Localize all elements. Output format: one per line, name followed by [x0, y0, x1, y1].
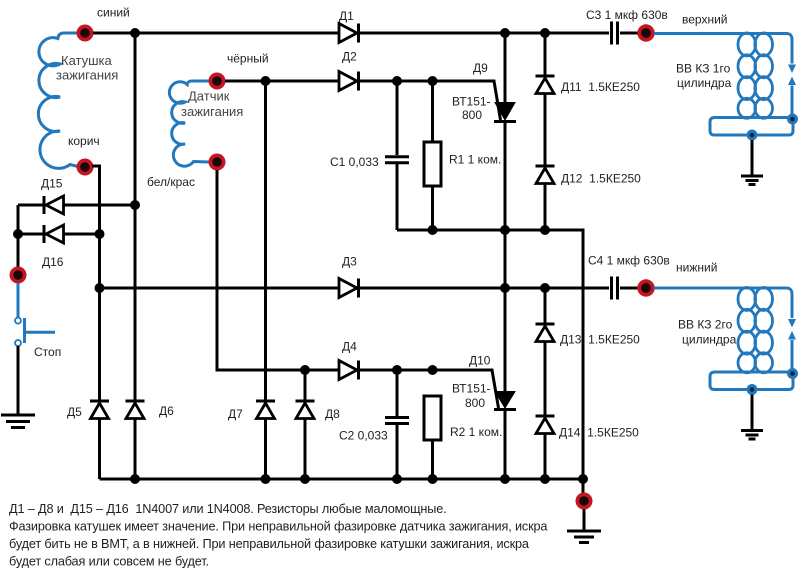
wire row y288 D3 to C4	[357, 287, 609, 290]
wire D2 row D2 to gate	[357, 81, 501, 120]
terminal чёрный	[209, 73, 226, 90]
capacitor C3	[612, 22, 618, 45]
svg-text:зажигания: зажигания	[181, 104, 243, 119]
node y230 D9	[500, 225, 510, 235]
node bottom x266	[261, 474, 271, 484]
svg-text:верхний: верхний	[682, 13, 728, 27]
diode D15	[18, 196, 135, 214]
node top junction x135	[130, 28, 140, 38]
svg-text:Д2: Д2	[342, 50, 357, 64]
node D15 x135	[130, 200, 140, 210]
resistor R2	[424, 396, 441, 440]
node x100 D16 row	[95, 229, 105, 239]
svg-text:800: 800	[462, 108, 482, 122]
node y230 R1	[428, 225, 438, 235]
svg-text:Д1: Д1	[339, 9, 354, 23]
wire vertical x218 белкрас to D4 row	[217, 170, 339, 370]
node D2 row x265	[261, 76, 271, 86]
wire D8 lower lead	[304, 419, 307, 479]
node top row D11 tap	[540, 28, 550, 38]
node D4 row R2 tap	[428, 365, 438, 375]
svg-text:цилиндра: цилиндра	[677, 76, 732, 90]
diode D2	[339, 72, 359, 91]
wire C2 upper lead	[396, 370, 399, 416]
svg-text:Д12 1.5КЕ250: Д12 1.5КЕ250	[561, 172, 641, 186]
svg-text:Д7: Д7	[228, 407, 243, 421]
diode D7	[256, 401, 275, 419]
wire R1 lower lead	[431, 186, 434, 230]
svg-text:Фазировка катушек имеет значен: Фазировка катушек имеет значение. При не…	[9, 520, 548, 534]
svg-text:Д8: Д8	[325, 407, 340, 421]
node y288 D10	[500, 283, 510, 293]
node D4 row C2 tap	[392, 365, 402, 375]
svg-text:Датчик: Датчик	[188, 89, 230, 104]
svg-text:чёрный: чёрный	[227, 52, 269, 66]
capacitor C2	[385, 418, 409, 424]
ground bottom	[567, 531, 601, 543]
svg-text:Д11 1.5КЕ250: Д11 1.5КЕ250	[561, 80, 640, 94]
svg-text:корич: корич	[68, 134, 100, 148]
node bottom x135	[130, 474, 140, 484]
wire common row y230	[397, 230, 583, 479]
wire ground stem bottom	[583, 509, 586, 530]
diode D4	[339, 361, 359, 380]
svg-text:Д14 1.5КЕ250: Д14 1.5КЕ250	[559, 426, 639, 440]
svg-text:Д4: Д4	[342, 340, 357, 354]
svg-text:Д10: Д10	[469, 354, 491, 368]
capacitor C1	[385, 157, 409, 163]
node bottom x505	[500, 474, 510, 484]
terminal стоп	[10, 267, 27, 284]
svg-text:Катушка: Катушка	[61, 53, 113, 68]
transformer T1 ВВ КЗ 1го цилиндра	[654, 33, 798, 185]
diode D6	[126, 401, 145, 419]
wire R2 lower lead	[431, 440, 434, 479]
svg-text:цилиндра: цилиндра	[682, 333, 737, 347]
wire D14 to bottom row	[544, 434, 547, 480]
terminal корич	[77, 159, 94, 176]
terminal синий	[77, 25, 94, 42]
node y230 D12	[540, 225, 550, 235]
node D2 row C1 tap	[392, 76, 402, 86]
svg-text:зажигания: зажигания	[56, 68, 118, 83]
wire x266 below D7	[264, 419, 267, 479]
svg-text:бел/крас: бел/крас	[147, 175, 195, 189]
wire C2 lower lead	[396, 425, 399, 479]
diode D16	[18, 225, 100, 243]
diode D1	[339, 24, 359, 43]
terminal ground bottom	[576, 493, 593, 510]
wire C1 upper lead	[396, 81, 399, 155]
svg-text:синий: синий	[97, 6, 130, 20]
svg-text:нижний: нижний	[676, 261, 717, 275]
svg-text:С1 0,033: С1 0,033	[330, 155, 379, 169]
thyristor D9 BT151-800	[494, 103, 516, 122]
diode D5	[90, 401, 109, 419]
terminal нижний	[637, 279, 654, 296]
wire switch to ground	[17, 346, 20, 414]
diode D12	[536, 166, 555, 184]
svg-text:R1 1 ком.: R1 1 ком.	[449, 153, 501, 167]
wire D4 row D4 to gate	[357, 370, 499, 408]
wire D11 to D12	[544, 94, 547, 167]
wire D9 cathode to D10 anode	[504, 122, 507, 393]
wire C4 to T7	[620, 287, 638, 290]
node top row D9 tap	[500, 28, 510, 38]
capacitor C4	[612, 277, 618, 300]
ground left	[1, 415, 35, 428]
wire корич terminal to vertical	[92, 166, 100, 401]
svg-text:С4 1 мкф 630в: С4 1 мкф 630в	[588, 254, 670, 268]
wire top row T1 to D1	[93, 32, 339, 35]
wire D9 anode lead	[504, 33, 507, 103]
node bottom x583	[578, 474, 588, 484]
node bottom x432	[428, 474, 438, 484]
node y288 D13	[540, 283, 550, 293]
svg-text:Д5: Д5	[67, 405, 82, 419]
sensor coil Датчик зажигания	[169, 81, 210, 166]
thyristor D10 BT151-800	[494, 392, 516, 410]
wire y288 to D13	[544, 288, 547, 324]
diode D11	[536, 76, 555, 94]
wire vertical x266 sensor to D7	[264, 81, 267, 401]
switch Стоп pushbutton	[15, 318, 55, 346]
svg-text:ВВ КЗ 2го: ВВ КЗ 2го	[678, 318, 733, 332]
diode D3	[339, 279, 359, 298]
svg-text:Д15: Д15	[41, 177, 63, 191]
svg-text:ВВ КЗ 1го: ВВ КЗ 1го	[676, 62, 731, 76]
wire D10 cathode	[504, 410, 507, 480]
svg-text:ВТ151-: ВТ151-	[452, 382, 491, 396]
diode D14	[536, 416, 555, 434]
wire bottom row	[100, 478, 584, 481]
svg-text:R2 1 ком.: R2 1 ком.	[450, 425, 502, 439]
node bottom x397	[392, 474, 402, 484]
svg-text:Д9: Д9	[473, 61, 488, 75]
wire vertical x135 upper	[134, 33, 137, 401]
transformer T2 ВВ КЗ 2го цилиндра	[654, 287, 798, 439]
terminal верхний	[637, 24, 654, 41]
node D4 row D8 tap	[300, 365, 310, 375]
resistor R1	[424, 142, 441, 186]
diode D8	[296, 401, 315, 419]
wire C1 lower lead	[396, 164, 399, 230]
svg-text:800: 800	[465, 396, 485, 410]
wire D8 upper lead	[304, 370, 307, 401]
wire x583 to ground terminal	[582, 479, 585, 493]
terminal бел/крас	[209, 154, 226, 171]
wire row y288 корич to D3	[100, 287, 340, 290]
wire left vertical x18	[17, 205, 20, 267]
wire D2 row T3 to D2	[225, 80, 339, 83]
wire vertical x135 lower	[134, 419, 137, 479]
wire C3 to T6	[620, 32, 638, 35]
wire R1 upper lead	[431, 81, 434, 142]
svg-text:будет бить не в ВМТ, а в нижне: будет бить не в ВМТ, а в нижней. При неп…	[9, 537, 530, 551]
wire D12 to y230	[544, 184, 547, 231]
svg-text:Д16: Д16	[42, 255, 64, 269]
wire x545 top row to D11	[544, 33, 547, 76]
wire x99 below D5 to bottom row	[98, 419, 101, 479]
svg-text:Д13 1.5КЕ250: Д13 1.5КЕ250	[560, 333, 640, 347]
node bottom x545	[540, 474, 550, 484]
wire blue T5 to switch	[17, 283, 20, 317]
node x18 D16 row	[13, 229, 23, 239]
svg-text:Д1 – Д8 и Д15 – Д16 1N4007 и: Д1 – Д8 и Д15 – Д16 1N4007 или 1N4008. Р…	[9, 502, 447, 516]
node bottom x305	[300, 474, 310, 484]
svg-text:Стоп: Стоп	[34, 345, 61, 359]
node y288 x100	[95, 283, 105, 293]
node D2 row R1 tap	[428, 76, 438, 86]
ignition coil L1 Катушка зажигания	[38, 33, 79, 168]
svg-text:будет слабая или совсем не буд: будет слабая или совсем не будет.	[9, 555, 209, 569]
diode D13	[536, 324, 555, 342]
wire top row D1 to C3	[357, 32, 609, 35]
svg-text:Д3: Д3	[342, 255, 357, 269]
svg-text:С3 1 мкф 630в: С3 1 мкф 630в	[586, 8, 668, 22]
wire D13 to D14	[544, 342, 547, 417]
svg-text:Д6: Д6	[159, 404, 174, 418]
svg-text:ВТ151-: ВТ151-	[452, 95, 491, 109]
svg-text:С2 0,033: С2 0,033	[339, 429, 388, 443]
